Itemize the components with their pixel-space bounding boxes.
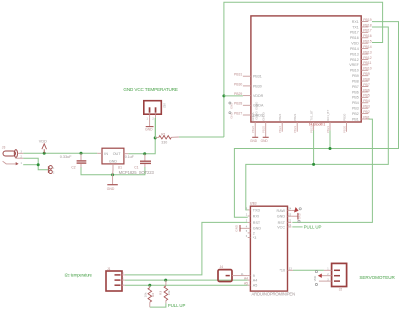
svg-text:PB10: PB10 (350, 69, 359, 73)
svg-text:PB7: PB7 (352, 85, 359, 89)
svg-text:A5: A5 (244, 282, 248, 286)
svg-text:PB11: PB11 (363, 61, 371, 65)
bluetooth right pin PB11 (349, 61, 371, 67)
bluetooth bottom pin PB24 (278, 113, 282, 133)
wire VDD input rail (23, 152, 97, 154)
svg-text:VCC: VCC (277, 225, 285, 229)
svg-text:PB7: PB7 (363, 83, 370, 87)
svg-text:PB20: PB20 (342, 126, 346, 133)
node junction J3 pins (37, 163, 40, 166)
node junction C2 top (80, 152, 83, 155)
arduino left pin RXI (246, 212, 259, 218)
bluetooth right pin PB1 (352, 115, 370, 121)
arduino right pin *10 (279, 267, 293, 273)
svg-text:PB3: PB3 (363, 105, 370, 109)
svg-text:i2c temperature: i2c temperature (65, 272, 93, 277)
bluetooth bottom pin PB20 (342, 113, 346, 133)
J3 pin 3 (18, 151, 24, 154)
node junction PB29 tap (222, 94, 225, 97)
bluetooth bottom pin PB23 (293, 113, 297, 133)
svg-text:MCP1825_SOT223: MCP1825_SOT223 (119, 170, 155, 175)
bluetooth right pin PB14 (350, 45, 372, 51)
svg-text:PB14: PB14 (350, 47, 359, 51)
wire net PB1 to arduino RST pin22 (292, 119, 372, 222)
J1 pin 3 (115, 272, 125, 275)
svg-text:RAW: RAW (277, 209, 286, 213)
bluetooth left pin PB27 (229, 111, 264, 119)
wire temp sensor VCC (155, 118, 157, 138)
svg-text:OUT: OUT (113, 152, 122, 156)
node junction R3 tap (164, 279, 167, 282)
svg-text:PB17: PB17 (363, 29, 371, 33)
capacitor C1 (125, 154, 151, 170)
svg-text:PB30: PB30 (234, 82, 242, 86)
IC U$3 arduino pro mini body (250, 202, 288, 291)
svg-text:RX1_BT: RX1_BT (326, 110, 330, 121)
svg-text:U1: U1 (118, 166, 122, 170)
svg-text:9: 9 (253, 274, 255, 278)
svg-text:PB24: PB24 (278, 113, 282, 120)
svg-text:GNDD: GNDD (254, 102, 258, 110)
svg-text:0.1uF: 0.1uF (125, 155, 135, 159)
svg-text:PB10: PB10 (363, 67, 371, 71)
regulator U1 body (102, 148, 124, 164)
ground symbol temp connector (145, 118, 154, 132)
svg-text:R2: R2 (151, 293, 155, 297)
wire R1 to PB29 vertical (179, 136, 224, 138)
svg-text:PB8: PB8 (352, 79, 359, 83)
wire bluetooth bottom pin to PB18 net (313, 130, 315, 164)
arduino left pin *3 (246, 234, 257, 240)
svg-text:PB20: PB20 (342, 113, 346, 120)
svg-text:PB30: PB30 (253, 84, 262, 88)
svg-text:GND: GND (261, 139, 269, 143)
svg-text:*10: *10 (279, 269, 285, 273)
connector J4 jumper (218, 265, 232, 282)
svg-text:J3: J3 (2, 145, 6, 149)
wire i2c SDA J1 pin2 to A4 (125, 279, 248, 281)
J2 pin 3 (319, 278, 340, 281)
svg-text:PB6: PB6 (363, 88, 370, 92)
bluetooth right pin PB16 (350, 34, 372, 40)
svg-text:PB5: PB5 (352, 96, 359, 100)
svg-text:PB28: PB28 (234, 102, 242, 106)
svg-text:C1: C1 (134, 166, 138, 170)
arduino right pin RST (278, 219, 292, 225)
arduino right pin RAW (277, 207, 292, 213)
svg-text:GND: GND (298, 213, 302, 219)
wire bluetooth bottom pin to PB19 net (329, 130, 331, 148)
svg-text:PB8: PB8 (363, 77, 370, 81)
op-amp U1 bluetooth module body (251, 16, 361, 122)
J2 pin 2 (319, 273, 340, 276)
svg-text:U$3: U$3 (250, 202, 257, 206)
J3 pin 2 (15, 155, 23, 158)
svg-text:bluetooth1: bluetooth1 (309, 123, 325, 127)
svg-text:10k: 10k (143, 292, 147, 297)
svg-text:PB22: PB22 (309, 126, 313, 133)
wire J4 to arduino pin11 (232, 275, 248, 277)
svg-text:GND: GND (109, 160, 117, 164)
green label PULL UP bottom (168, 303, 186, 308)
svg-text:PB29: PB29 (234, 92, 242, 96)
bluetooth right pin PB2 (352, 110, 370, 116)
svg-text:PB24: PB24 (278, 126, 282, 133)
svg-text:GND: GND (250, 139, 258, 143)
label MCP1825_SOT223 (119, 170, 155, 175)
node junction regulator GND (111, 173, 114, 176)
wire i2c J1 pin1 to A5 (125, 284, 248, 286)
svg-text:J1: J1 (107, 267, 111, 271)
svg-text:PB14: PB14 (363, 45, 371, 49)
bluetooth bottom pin PB22 (309, 110, 313, 133)
arduino left pin A4 (244, 277, 257, 283)
wire arduino pin13 to servo (293, 269, 324, 271)
bluetooth right pin PB12 (350, 56, 372, 62)
svg-text:GND: GND (234, 224, 238, 232)
connector J2 servo header (332, 263, 347, 291)
svg-text:PB2: PB2 (363, 110, 370, 114)
wire regulator output net (128, 118, 155, 154)
svg-text:PB23: PB23 (293, 113, 297, 120)
bluetooth right pin PB17 (350, 29, 372, 35)
J1 pin 1 (115, 283, 125, 286)
svg-text:U$2: U$2 (163, 103, 167, 109)
J2 pin 1 (324, 268, 340, 271)
svg-text:R3: R3 (159, 291, 163, 295)
svg-text:VDDR: VDDR (253, 94, 264, 98)
bluetooth bottom pin PB25 (262, 112, 269, 137)
svg-text:R1: R1 (161, 132, 165, 136)
arduino left pin GND (246, 225, 262, 231)
temperature connector pin 1 (147, 114, 150, 120)
svg-text:PB12: PB12 (350, 58, 359, 62)
svg-text:GND: GND (277, 215, 286, 219)
svg-text:VDD: VDD (39, 139, 47, 143)
bluetooth left pin PB30 (234, 82, 262, 88)
svg-text:GND: GND (107, 187, 115, 191)
svg-text:VREF: VREF (349, 63, 359, 67)
svg-text:PB16: PB16 (363, 34, 371, 38)
svg-text:2: 2 (253, 231, 255, 235)
svg-text:A4: A4 (253, 279, 258, 283)
bluetooth right pin PB4 (352, 99, 370, 105)
wire net PB15/PB29/sensor top loop (224, 2, 383, 137)
svg-text:VDD: VDD (313, 276, 317, 282)
svg-text:PB1: PB1 (352, 117, 359, 121)
arduino left pin 2 (246, 229, 255, 235)
svg-text:PB13: PB13 (350, 52, 359, 56)
bluetooth left pin PB28 (229, 102, 264, 110)
green label PULL UP right (304, 225, 322, 230)
svg-text:PB16: PB16 (350, 36, 359, 40)
svg-text:VDD: VDD (351, 42, 359, 46)
wire net PB19 to RXI (234, 22, 398, 218)
arduino left pin 9 (241, 272, 255, 278)
power arrow servo pin2 (313, 271, 322, 286)
connector U$2 temperature header (144, 101, 167, 115)
node junction C1 top (143, 152, 146, 155)
svg-text:PB4: PB4 (363, 99, 370, 103)
wire J3 pin2 to jumper (23, 158, 48, 170)
svg-text:A5: A5 (253, 284, 258, 288)
temperature connector pin 2 (152, 114, 155, 120)
node junction R1/sensor (154, 136, 157, 139)
svg-text:PB4: PB4 (352, 101, 359, 105)
svg-text:PB26: PB26 (251, 126, 255, 133)
svg-text:GNDA: GNDA (251, 112, 255, 120)
green label GND VCC TEMPERATURE (123, 87, 178, 92)
wire i2c SCL J1 pin3 to arduino RST (125, 222, 248, 275)
wire J3 pin1 (23, 164, 38, 166)
green label SERVOMOTEUR (359, 275, 395, 280)
arduino left pin A5 (244, 282, 257, 288)
svg-text:330: 330 (161, 141, 167, 145)
svg-text:RST: RST (278, 221, 286, 225)
wire net PB18 to TXD (246, 27, 388, 210)
node junction VDD arrow (43, 152, 46, 155)
bluetooth right pin PB8 (352, 77, 370, 83)
bluetooth right pin PB6 (352, 88, 370, 94)
label ARDUINOPROMINIPEN (252, 292, 296, 297)
ground symbol arduino pin23 (291, 208, 301, 223)
U1 IN pin (97, 152, 102, 154)
svg-text:PB15: PB15 (363, 40, 371, 44)
bluetooth right pin PB19 (352, 18, 372, 24)
ground symbol arduino GND pin (234, 224, 247, 232)
svg-text:GND: GND (145, 128, 153, 132)
node junction PB19 net (329, 147, 332, 150)
node junction R2 tap (148, 284, 151, 287)
svg-text:PB13: PB13 (363, 50, 371, 54)
svg-text:PULL UP: PULL UP (304, 225, 322, 230)
wire arduino VCC pin21 stub (292, 226, 302, 228)
svg-text:TXD: TXD (253, 208, 261, 212)
bluetooth bottom pin PB21 (326, 110, 330, 133)
label GND GND bottom (250, 139, 268, 143)
bluetooth left pin PB29 (234, 92, 264, 98)
svg-text:J2: J2 (339, 287, 343, 291)
svg-text:PB27: PB27 (234, 111, 242, 115)
svg-text:PB2: PB2 (352, 112, 359, 116)
bluetooth left pin PB31 (234, 73, 262, 79)
U1 OUT pin (124, 153, 128, 155)
svg-text:PULL UP: PULL UP (168, 303, 186, 308)
bluetooth right pin PB13 (350, 50, 372, 56)
jumper JP1 solder pads (48, 166, 55, 175)
svg-text:A4: A4 (244, 277, 248, 281)
J1 pin 2 (115, 277, 125, 280)
node junction PB18 net (312, 163, 315, 166)
bluetooth right pin PB15 (351, 40, 372, 46)
arduino left pin TXD (246, 206, 261, 212)
svg-text:IN: IN (104, 152, 108, 156)
capacitor C2 (60, 153, 87, 169)
svg-text:PB5: PB5 (363, 94, 370, 98)
svg-text:SERVOMOTEUR: SERVOMOTEUR (359, 275, 395, 280)
bluetooth bottom pin PB26 (251, 112, 258, 137)
bluetooth right pin PB7 (352, 83, 370, 89)
bluetooth right pin PB5 (352, 94, 370, 100)
arduino right pin GND (277, 213, 292, 219)
svg-text:PB25: PB25 (262, 126, 266, 133)
bluetooth right pin PB10 (350, 67, 372, 73)
svg-text:GNDD: GNDD (262, 112, 266, 121)
svg-text:10k: 10k (167, 290, 171, 295)
svg-text:PB12: PB12 (363, 56, 371, 60)
resistor R2 (143, 285, 154, 307)
bluetooth right pin PB18 (352, 23, 372, 29)
svg-text:PB3: PB3 (352, 107, 359, 111)
J3 pin 1 switch contact (3, 161, 23, 165)
svg-text:PB1: PB1 (363, 115, 370, 119)
resistor R3 (159, 280, 171, 303)
svg-text:PB18: PB18 (363, 23, 371, 27)
wire pull-up bottoms (150, 303, 166, 307)
svg-text:PB31: PB31 (253, 75, 262, 79)
connector J3 power jack (2, 145, 18, 157)
svg-text:TX1: TX1 (352, 25, 359, 29)
wire ground run (81, 167, 145, 175)
svg-text:J4: J4 (220, 265, 224, 269)
arduino right pin VCC (277, 223, 292, 229)
svg-text:PB21: PB21 (326, 126, 330, 133)
svg-text:PB9: PB9 (363, 72, 370, 76)
svg-text:PB23: PB23 (293, 126, 297, 133)
bluetooth right pin PB3 (352, 105, 370, 111)
U1 GND pin (112, 164, 114, 175)
arduino left pin RST (246, 219, 261, 225)
svg-text:RXI: RXI (253, 214, 259, 218)
svg-text:0.33uF: 0.33uF (60, 154, 72, 159)
svg-text:PB6: PB6 (352, 90, 359, 94)
ground symbol regulator (107, 175, 118, 191)
power VDD symbol (39, 139, 47, 153)
power arrow RAW pin (291, 207, 298, 213)
svg-text:ARDUINOPROMINIPEN: ARDUINOPROMINIPEN (252, 292, 296, 297)
svg-text:RST: RST (253, 221, 261, 225)
svg-text:PB31: PB31 (234, 73, 242, 77)
svg-text:GND VCC TEMPERATURE: GND VCC TEMPERATURE (123, 87, 178, 92)
wire PB29 branch (224, 95, 243, 97)
svg-text:GND: GND (253, 227, 262, 231)
green label i2c temperature (65, 272, 93, 277)
svg-text:RX1: RX1 (352, 20, 359, 24)
svg-text:PB17: PB17 (350, 31, 359, 35)
connector J1 i2c header (106, 267, 122, 291)
svg-text:TX1_BT: TX1_BT (309, 110, 313, 121)
label bluetooth1 (309, 123, 325, 127)
bluetooth right pin PB9 (352, 72, 370, 78)
svg-text:PB9: PB9 (352, 74, 359, 78)
label U1 (118, 166, 122, 170)
svg-text:PB19: PB19 (363, 18, 371, 22)
svg-text:*3: *3 (253, 236, 256, 240)
resistor R1 (155, 132, 179, 144)
svg-text:C2: C2 (71, 166, 75, 170)
